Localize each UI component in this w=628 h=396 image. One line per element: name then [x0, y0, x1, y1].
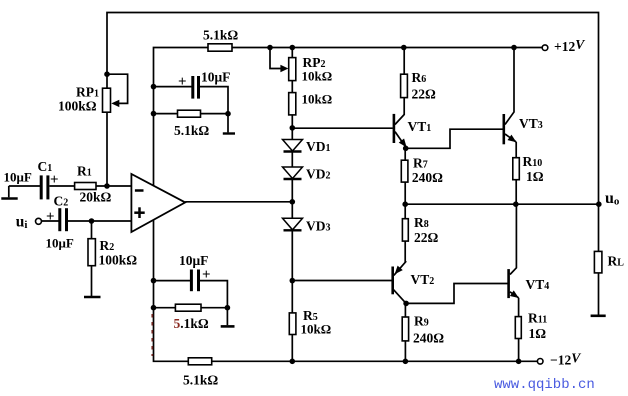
svg-text:10μF: 10μF	[4, 170, 32, 185]
svg-text:+: +	[178, 74, 187, 90]
svg-text:5.1kΩ: 5.1kΩ	[174, 123, 209, 138]
svg-text:+12V: +12V	[554, 37, 585, 54]
svg-text:22Ω: 22Ω	[412, 87, 437, 102]
svg-text:10μF: 10μF	[179, 253, 208, 268]
svg-text:100kΩ: 100kΩ	[99, 253, 138, 268]
svg-text:20kΩ: 20kΩ	[80, 190, 112, 205]
svg-text:5.1kΩ: 5.1kΩ	[183, 373, 218, 388]
svg-text:1Ω: 1Ω	[526, 169, 544, 184]
svg-text:−12V: −12V	[550, 351, 581, 368]
svg-text:+: +	[46, 209, 55, 225]
svg-text:100kΩ: 100kΩ	[58, 99, 97, 114]
svg-text:+: +	[50, 172, 59, 188]
svg-text:10kΩ: 10kΩ	[302, 92, 333, 107]
svg-text:5.1kΩ: 5.1kΩ	[203, 28, 238, 43]
svg-text:www.qqibb.cn: www.qqibb.cn	[494, 377, 595, 393]
svg-text:+: +	[202, 267, 211, 283]
svg-text:22Ω: 22Ω	[414, 230, 439, 245]
svg-text:10kΩ: 10kΩ	[302, 69, 333, 84]
svg-text:10μF: 10μF	[201, 70, 230, 85]
svg-text:10kΩ: 10kΩ	[301, 322, 332, 337]
svg-text:10μF: 10μF	[46, 236, 74, 251]
svg-text:1Ω: 1Ω	[529, 326, 547, 341]
svg-text:240Ω: 240Ω	[413, 331, 444, 346]
svg-text:5.1kΩ: 5.1kΩ	[174, 316, 209, 331]
svg-text:240Ω: 240Ω	[412, 170, 443, 185]
